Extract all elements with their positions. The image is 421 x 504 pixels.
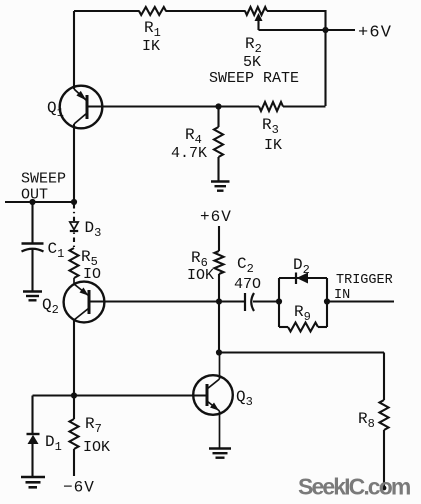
resistor R4 <box>171 107 223 182</box>
ground (below C1) <box>23 292 42 301</box>
power -6V (bottom) <box>63 479 95 497</box>
wire TRIGGER IN lead <box>327 300 394 302</box>
diode D2 <box>279 256 327 284</box>
resistor R8 <box>358 353 389 491</box>
svg-text:SWEEP: SWEEP <box>21 171 66 188</box>
wire Q2 base to R6/C2 junction <box>89 300 219 302</box>
resistor R7 <box>70 396 111 477</box>
svg-text:IOK: IOK <box>83 439 110 456</box>
wire Q1 collector down to sweep-out node <box>73 124 75 202</box>
svg-text:+6V: +6V <box>358 24 392 43</box>
svg-text:4.7K: 4.7K <box>171 145 207 162</box>
wire parallel box right side <box>326 278 328 327</box>
ground (below D1) <box>21 477 45 487</box>
svg-text:IO: IO <box>83 266 101 283</box>
diode D3 <box>70 204 102 240</box>
resistor R3 <box>219 102 326 154</box>
node C2/box-left junction <box>276 298 282 304</box>
node collector junction <box>216 349 222 355</box>
wire Q1 emitter from top rail <box>73 11 75 89</box>
power +6V (top right) <box>358 24 392 43</box>
power +6V (middle) <box>200 208 232 226</box>
resistor R6 <box>187 226 224 302</box>
wire dashed D3 to R5 <box>73 233 75 249</box>
wire top rail middle segment <box>166 10 246 12</box>
node box-right/trigger junction <box>324 298 330 304</box>
svg-text:−6V: −6V <box>63 479 95 497</box>
ground (below R4) <box>211 182 230 191</box>
node R3/R4/base junction <box>215 103 221 109</box>
node +6V tap junction <box>322 27 328 33</box>
svg-text:IOK: IOK <box>187 267 214 284</box>
potentiometer R2 <box>209 7 299 87</box>
diode D1 <box>27 396 62 478</box>
transistor Q2 <box>42 278 104 322</box>
node SWEEP OUT <box>5 171 77 206</box>
resistor R1 <box>139 7 166 55</box>
svg-text:+6V: +6V <box>200 208 232 226</box>
wire right vertical (top rail to R3) <box>324 10 326 106</box>
node R6/C2/Q2 junction <box>216 298 222 304</box>
wire Q1 base to R3/R4 junction <box>87 105 219 107</box>
wire top rail right segment <box>267 10 326 12</box>
wire bottom horizontal to Q3 base <box>33 394 208 396</box>
svg-text:47O: 47O <box>234 276 261 293</box>
node TRIGGER IN <box>334 273 393 303</box>
wire parallel box left side <box>278 278 280 327</box>
svg-text:IK: IK <box>142 38 160 55</box>
wire Q2 collector down to bottom node <box>73 320 75 396</box>
wire top rail left segment <box>74 10 140 12</box>
svg-text:IN: IN <box>334 288 350 303</box>
capacitor C2 <box>219 255 279 311</box>
resistor R5 <box>70 248 102 283</box>
wire R6 node down to collector node <box>218 302 220 353</box>
resistor R9 <box>279 303 327 332</box>
wire R2 wiper to +6V node <box>259 29 326 31</box>
transistor Q3 <box>193 353 253 449</box>
capacitor C1 <box>22 202 65 292</box>
svg-text:TRIGGER: TRIGGER <box>336 273 393 288</box>
node bottom junction <box>71 392 77 398</box>
svg-text:SWEEP RATE: SWEEP RATE <box>209 70 299 87</box>
svg-text:5K: 5K <box>243 54 261 71</box>
svg-text:SeekIC.com: SeekIC.com <box>298 474 411 500</box>
wire collector node to R8 <box>219 351 384 353</box>
wire +6V stub <box>326 29 356 31</box>
transistor Q1 <box>47 86 102 129</box>
ground (below Q3) <box>209 449 231 458</box>
watermark SeekIC.com <box>298 474 411 500</box>
svg-text:IK: IK <box>264 137 282 154</box>
